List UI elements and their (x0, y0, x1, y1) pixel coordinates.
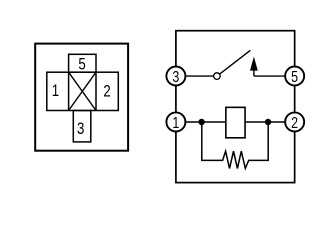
svg-text:1: 1 (172, 115, 179, 133)
svg-text:3: 3 (77, 119, 84, 138)
svg-text:3: 3 (172, 69, 179, 87)
svg-text:2: 2 (103, 82, 110, 101)
svg-text:1: 1 (52, 82, 59, 101)
svg-text:5: 5 (78, 55, 85, 74)
svg-text:5: 5 (291, 69, 298, 87)
svg-text:2: 2 (291, 115, 298, 133)
